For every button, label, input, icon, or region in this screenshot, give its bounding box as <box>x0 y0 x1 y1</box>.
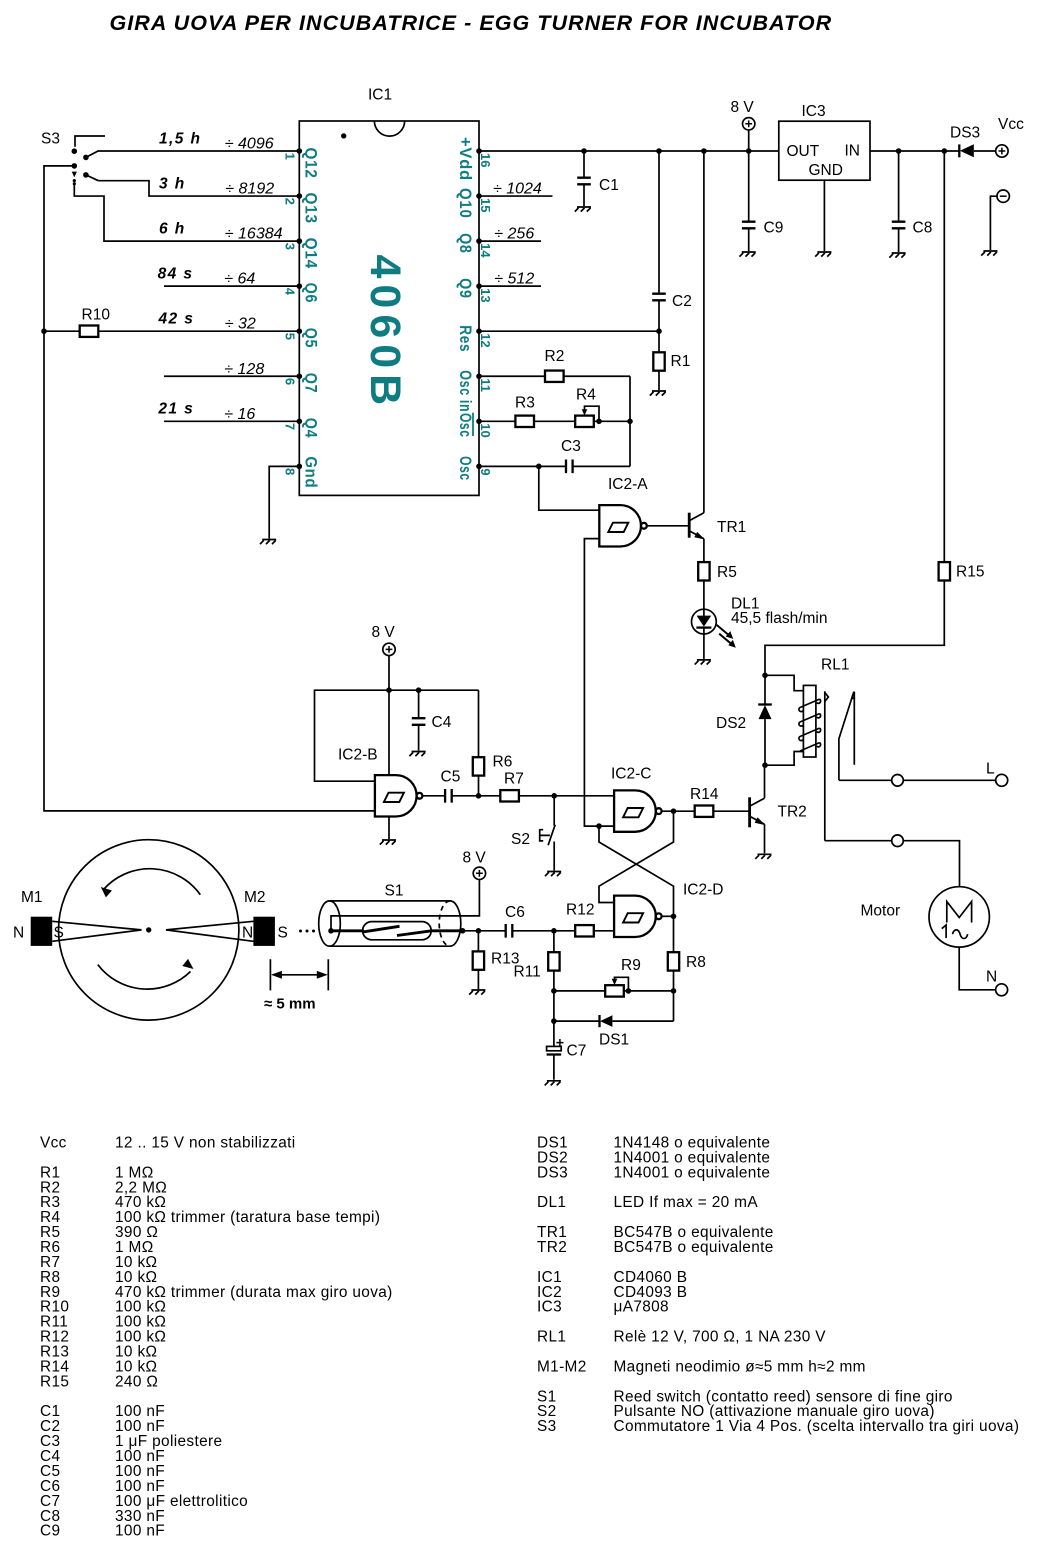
svg-text:3: 3 <box>282 243 297 250</box>
resistor R5 <box>703 539 705 610</box>
svg-text:6: 6 <box>282 378 297 385</box>
wire motor to N <box>959 947 995 990</box>
svg-text:M1-M2: M1-M2 <box>537 1359 587 1376</box>
svg-text:8 V: 8 V <box>731 99 755 116</box>
trimmer R9 <box>554 957 674 997</box>
nand IC2-D <box>614 896 662 937</box>
wire Vcc rail right <box>765 151 944 673</box>
svg-text:Q13: Q13 <box>301 193 319 224</box>
svg-text:IC3: IC3 <box>537 1299 562 1316</box>
svg-text:Osc: Osc <box>456 413 474 438</box>
terminal Vcc plus <box>996 145 1008 157</box>
parts list right <box>537 1135 1019 1436</box>
svg-text:μA7808: μA7808 <box>614 1299 669 1316</box>
ground minus <box>981 251 997 256</box>
wire latch cross B <box>599 811 674 902</box>
resistor R14 <box>662 810 750 812</box>
svg-text:84 s: 84 s <box>158 266 194 283</box>
dimension 5mm <box>264 959 328 1012</box>
resistor R12 <box>554 930 614 932</box>
svg-text:15: 15 <box>478 198 493 212</box>
svg-text:S3: S3 <box>537 1418 557 1435</box>
svg-text:Q6: Q6 <box>301 283 319 304</box>
svg-text:÷ 64: ÷ 64 <box>224 271 255 288</box>
svg-text:Q14: Q14 <box>301 238 319 269</box>
svg-text:Osc: Osc <box>456 456 474 481</box>
wire pin9 to gate A <box>539 466 600 510</box>
svg-text:6 h: 6 h <box>159 220 186 237</box>
svg-text:Q9: Q9 <box>456 278 474 299</box>
svg-text:8 V: 8 V <box>463 850 487 867</box>
svg-text:21 s: 21 s <box>157 401 194 418</box>
svg-text:C7: C7 <box>567 1043 587 1060</box>
ground TR2 <box>755 854 771 859</box>
wire pin1 <box>98 150 299 152</box>
capacitor C8 <box>898 151 900 252</box>
svg-text:R13: R13 <box>491 951 519 968</box>
svg-text:Q5: Q5 <box>301 328 319 349</box>
time labels <box>157 130 201 417</box>
IC1 left pin names <box>282 148 319 489</box>
svg-text:12 .. 15 V non stabilizzati: 12 .. 15 V non stabilizzati <box>115 1135 296 1152</box>
svg-text:N: N <box>242 925 253 942</box>
resistor R10 <box>44 330 299 332</box>
nand IC2-A <box>599 505 647 546</box>
wire pin3 / S3 common <box>74 185 299 241</box>
svg-text:4: 4 <box>282 288 297 296</box>
ground C7 <box>545 1081 561 1086</box>
ground C8 <box>889 253 905 258</box>
svg-text:R8: R8 <box>686 954 706 971</box>
svg-text:R6: R6 <box>493 754 513 771</box>
resistor R11 <box>553 931 555 991</box>
resistor R15 <box>939 562 950 580</box>
svg-text:Relè 12 V, 700 Ω, 1 NA 230 V: Relè 12 V, 700 Ω, 1 NA 230 V <box>614 1329 827 1346</box>
svg-text:S: S <box>54 925 64 942</box>
svg-text:TR2: TR2 <box>537 1239 567 1256</box>
svg-text:S3: S3 <box>41 131 60 148</box>
resistor R1 <box>658 331 660 390</box>
wire R11 bottom <box>553 991 555 1021</box>
divide labels left <box>224 136 282 423</box>
node Vdd rail pin16 <box>479 150 779 152</box>
nand IC2-B <box>375 775 423 816</box>
svg-text:÷ 8192: ÷ 8192 <box>225 181 274 198</box>
svg-text:R1: R1 <box>671 353 691 370</box>
svg-text:R9: R9 <box>621 957 641 974</box>
svg-text:Q10: Q10 <box>456 188 474 219</box>
wire 8V to reed <box>331 880 479 930</box>
dots magnet gap <box>299 930 302 933</box>
arrow ccw top <box>101 869 201 898</box>
svg-text:240 Ω: 240 Ω <box>115 1373 158 1390</box>
svg-text:14: 14 <box>478 243 493 258</box>
svg-text:÷ 1024: ÷ 1024 <box>493 181 542 198</box>
svg-text:R12: R12 <box>566 902 594 919</box>
parts list left <box>40 1135 393 1540</box>
magnet M1 <box>13 889 142 946</box>
supply 8V S1 <box>473 867 485 879</box>
svg-text:Q12: Q12 <box>301 148 319 179</box>
diode DS1 <box>554 1015 674 1049</box>
svg-text:Vcc: Vcc <box>40 1135 67 1152</box>
wire IC2-D output <box>662 915 674 917</box>
svg-text:÷ 256: ÷ 256 <box>494 226 534 243</box>
wire Vdd gate B <box>388 656 390 775</box>
capacitor C5 <box>422 795 478 797</box>
svg-text:LED If max = 20 mA: LED If max = 20 mA <box>614 1194 759 1211</box>
diode DS3 <box>944 144 995 157</box>
svg-text:IN: IN <box>845 143 861 160</box>
wire gate B ground <box>388 817 390 840</box>
capacitor C4 <box>418 690 420 750</box>
svg-text:1,5 h: 1,5 h <box>159 130 201 147</box>
svg-text:10: 10 <box>478 423 493 437</box>
wire feedback box <box>315 690 479 781</box>
svg-text:R14: R14 <box>690 786 719 803</box>
svg-text:R5: R5 <box>717 564 737 581</box>
wire R4 out <box>594 420 630 422</box>
svg-text:45,5 flash/min: 45,5 flash/min <box>731 610 828 627</box>
wire LED to ground <box>703 634 705 659</box>
arrow cw bottom <box>98 959 194 989</box>
relay pivot contact <box>824 691 826 841</box>
reed switch S1 <box>319 883 466 947</box>
ground S2 <box>545 872 561 877</box>
disc <box>59 840 239 1020</box>
resistor R3 <box>479 420 575 422</box>
svg-text:5: 5 <box>282 333 297 340</box>
disc center <box>146 927 151 932</box>
svg-text:RL1: RL1 <box>821 657 849 674</box>
svg-text:1: 1 <box>282 153 297 160</box>
svg-text:IC2-D: IC2-D <box>683 882 723 899</box>
ground C4 <box>409 752 425 757</box>
svg-text:N: N <box>986 969 997 986</box>
divide labels right + stubs <box>476 181 552 289</box>
IC1 4060B body <box>299 121 479 495</box>
transistor TR2 <box>750 797 807 827</box>
svg-text:÷ 32: ÷ 32 <box>225 316 256 333</box>
wire pin7 stub <box>164 420 299 422</box>
svg-text:Gnd: Gnd <box>301 456 319 488</box>
capacitor C1 <box>583 151 585 206</box>
svg-text:C9: C9 <box>764 220 784 237</box>
ground pin8 <box>260 540 276 545</box>
nand IC2-C <box>614 790 662 831</box>
svg-text:S2: S2 <box>511 831 530 848</box>
svg-text:Q4: Q4 <box>301 418 319 439</box>
svg-text:1N4001 o equivalente: 1N4001 o equivalente <box>614 1164 771 1181</box>
resistor R6 <box>478 690 480 796</box>
wire contact motor row <box>825 841 960 887</box>
wire TR1 collector <box>703 151 705 513</box>
svg-text:OUT: OUT <box>787 143 820 160</box>
svg-text:M1: M1 <box>21 889 43 906</box>
wire TR2 collector <box>764 765 766 798</box>
svg-text:Res: Res <box>456 325 474 352</box>
wire pin4 stub <box>164 285 299 287</box>
wire pin6 stub <box>164 375 299 377</box>
svg-text:BC547B o equivalente: BC547B o equivalente <box>614 1239 774 1256</box>
wire IC3 gnd <box>823 180 825 251</box>
svg-text:DS3: DS3 <box>950 125 980 142</box>
svg-text:GND: GND <box>809 162 843 179</box>
svg-text:11: 11 <box>478 378 493 392</box>
svg-text:R4: R4 <box>576 387 596 404</box>
svg-text:R2: R2 <box>545 348 565 365</box>
svg-text:GIRA UOVA PER INCUBATRICE - EG: GIRA UOVA PER INCUBATRICE - EGG TURNER F… <box>110 11 833 35</box>
svg-text:R7: R7 <box>504 771 524 788</box>
svg-text:÷ 16: ÷ 16 <box>224 406 255 423</box>
svg-text:C3: C3 <box>561 438 581 455</box>
svg-text:8: 8 <box>282 468 297 475</box>
svg-text:N: N <box>13 925 24 942</box>
svg-text:13: 13 <box>478 288 493 302</box>
pushbutton S2 <box>511 796 555 871</box>
wire pin12 <box>479 330 659 332</box>
svg-text:9: 9 <box>478 468 493 475</box>
svg-text:DS3: DS3 <box>537 1164 568 1181</box>
capacitor C3 <box>479 465 630 467</box>
svg-text:L: L <box>986 761 995 778</box>
svg-text:4060B: 4060B <box>361 255 409 412</box>
svg-text:7: 7 <box>282 423 297 430</box>
svg-text:C6: C6 <box>505 904 525 921</box>
LED DL1 <box>692 596 828 648</box>
switch S3 <box>72 136 106 185</box>
resistor R8 <box>673 916 675 1021</box>
svg-text:IC2-B: IC2-B <box>338 747 378 764</box>
node common rail <box>44 166 375 811</box>
wire contact L row <box>839 779 996 781</box>
svg-text:R15: R15 <box>40 1373 69 1390</box>
wire gate A input2 <box>584 539 614 827</box>
svg-text:C4: C4 <box>432 714 452 731</box>
svg-text:S: S <box>278 925 288 942</box>
svg-text:IC2-C: IC2-C <box>611 766 651 783</box>
svg-text:÷ 128: ÷ 128 <box>224 361 264 378</box>
svg-text:Magneti neodimio ø≈5 mm h≈2 mm: Magneti neodimio ø≈5 mm h≈2 mm <box>614 1359 866 1376</box>
capacitor C2 <box>658 151 660 331</box>
capacitor C9 <box>748 151 750 251</box>
svg-text:÷ 4096: ÷ 4096 <box>225 136 274 153</box>
wire osc feedback vertical <box>629 376 631 466</box>
svg-text:IC2-A: IC2-A <box>608 476 648 493</box>
resistor R7 <box>479 795 615 797</box>
svg-text:DS2: DS2 <box>716 715 746 732</box>
svg-text:12: 12 <box>478 333 493 347</box>
svg-text:42 s: 42 s <box>158 311 195 328</box>
svg-text:C1: C1 <box>599 177 619 194</box>
svg-text:Motor: Motor <box>861 903 901 920</box>
ground C9 <box>740 252 756 257</box>
wire TR2 emitter ground <box>764 824 766 853</box>
capacitor C7 <box>547 1021 587 1080</box>
ground R13 <box>469 990 485 995</box>
svg-text:16: 16 <box>478 153 493 167</box>
svg-text:C2: C2 <box>672 293 692 310</box>
svg-text:÷ 16384: ÷ 16384 <box>225 226 283 243</box>
wire pin2 <box>98 181 299 196</box>
motor <box>861 887 990 947</box>
ground DL1 <box>695 660 711 665</box>
svg-text:S1: S1 <box>385 883 404 900</box>
svg-text:C8: C8 <box>913 220 933 237</box>
svg-text:DL1: DL1 <box>537 1194 566 1211</box>
svg-text:C5: C5 <box>441 769 461 786</box>
svg-text:2: 2 <box>282 198 297 205</box>
svg-text:IC3: IC3 <box>802 103 826 120</box>
IC1 right pin names <box>456 137 493 481</box>
ground IC2-B <box>380 840 396 845</box>
svg-text:+Vdd: +Vdd <box>456 137 474 181</box>
svg-text:Vcc: Vcc <box>998 116 1024 133</box>
wire latch cross A <box>599 826 674 916</box>
svg-text:Q8: Q8 <box>456 233 474 254</box>
resistor R13 <box>477 931 479 989</box>
capacitor C6 <box>463 930 554 932</box>
svg-text:Osc in: Osc in <box>456 370 474 412</box>
wire IC3 in <box>870 150 944 152</box>
svg-text:TR2: TR2 <box>778 804 807 821</box>
svg-text:Commutatore 1 Via 4 Pos. (scel: Commutatore 1 Via 4 Pos. (scelta interva… <box>614 1418 1020 1435</box>
transistor TR1 <box>647 513 746 540</box>
svg-text:IC1: IC1 <box>368 87 392 104</box>
resistor R2 <box>479 375 630 377</box>
svg-text:TR1: TR1 <box>717 519 746 536</box>
svg-text:R10: R10 <box>82 307 111 324</box>
svg-text:3 h: 3 h <box>159 175 186 192</box>
regulator IC3 <box>779 121 870 180</box>
svg-text:DS1: DS1 <box>599 1032 629 1049</box>
svg-text:M2: M2 <box>244 889 266 906</box>
diode DS2 <box>716 673 772 769</box>
relay RL1 coil <box>765 657 849 766</box>
magnet M2 <box>166 889 288 946</box>
ground C1 <box>575 207 591 212</box>
svg-text:C9: C9 <box>40 1523 60 1540</box>
svg-text:RL1: RL1 <box>537 1329 566 1346</box>
svg-text:R15: R15 <box>956 564 984 581</box>
wire pin8 Gnd <box>269 466 299 538</box>
relay blade <box>839 692 855 781</box>
svg-text:≈ 5 mm: ≈ 5 mm <box>264 996 316 1013</box>
ground IC3 <box>815 252 831 257</box>
svg-text:100 nF: 100 nF <box>115 1523 165 1540</box>
svg-text:8 V: 8 V <box>372 624 396 641</box>
svg-text:R3: R3 <box>515 395 535 412</box>
supply 8V top <box>743 118 755 130</box>
supply 8V IC2-B <box>383 643 395 655</box>
terminal minus <box>997 190 1009 202</box>
svg-text:Q7: Q7 <box>301 373 319 394</box>
ground R1 <box>650 391 666 396</box>
svg-text:÷ 512: ÷ 512 <box>494 271 534 288</box>
trimmer R4 <box>575 387 599 427</box>
